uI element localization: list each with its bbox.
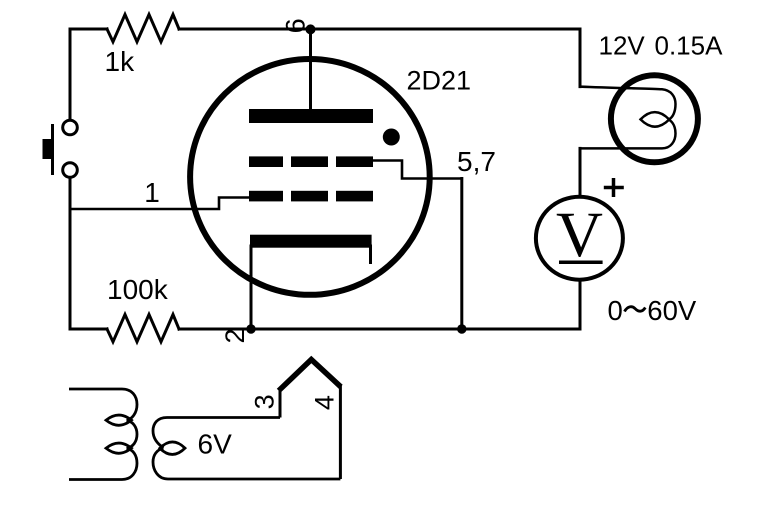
svg-text:V: V: [556, 199, 603, 271]
svg-text:1: 1: [144, 177, 160, 208]
svg-text:2: 2: [220, 328, 250, 343]
svg-text:6: 6: [281, 18, 311, 33]
svg-text:4: 4: [310, 395, 340, 410]
svg-text:3: 3: [249, 394, 279, 409]
svg-text:1k: 1k: [105, 46, 136, 77]
svg-text:100k: 100k: [107, 274, 169, 305]
svg-text:0: 0: [608, 295, 623, 326]
svg-text:12V 0.15A: 12V 0.15A: [599, 30, 724, 60]
svg-text:2D21: 2D21: [407, 65, 472, 95]
svg-text:6V: 6V: [198, 429, 233, 460]
svg-text:5,7: 5,7: [457, 146, 496, 177]
svg-text:60V: 60V: [647, 295, 697, 326]
